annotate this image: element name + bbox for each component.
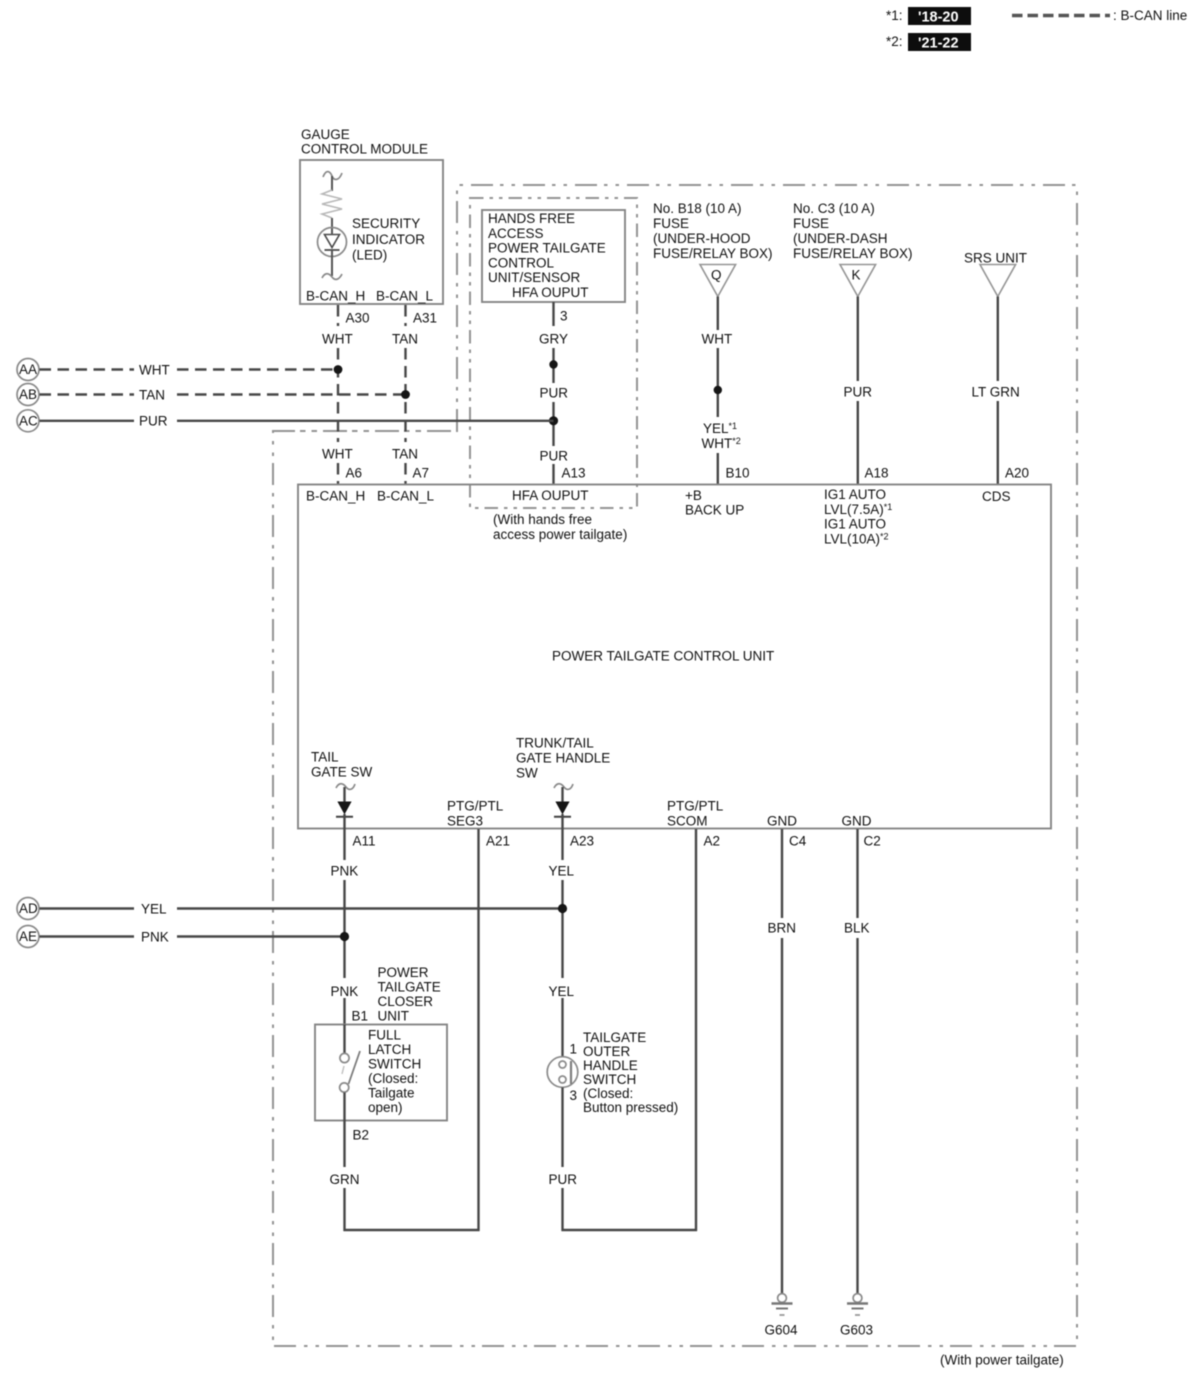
svg-text:A11: A11 (353, 834, 376, 849)
wire PNK from A11 to B1 (331, 829, 369, 1025)
pin B-CAN_H / B-CAN_L labels (306, 289, 434, 304)
svg-text:SW: SW (516, 766, 538, 781)
svg-text:A23: A23 (570, 834, 594, 849)
svg-text:FUSE/RELAY BOX): FUSE/RELAY BOX) (793, 246, 913, 261)
svg-text:3: 3 (570, 1088, 578, 1103)
svg-text:A21: A21 (486, 834, 510, 849)
svg-text:*1:: *1: (886, 8, 903, 23)
wire YEL from A23 to handle switch (549, 829, 575, 1057)
svg-text:B-CAN_H: B-CAN_H (306, 489, 365, 504)
svg-text:IG1 AUTO: IG1 AUTO (824, 517, 886, 532)
svg-text:PUR: PUR (139, 414, 168, 429)
svg-text:3: 3 (560, 309, 568, 324)
svg-text:POWER TAILGATE: POWER TAILGATE (488, 241, 606, 256)
ground G603 (840, 1294, 873, 1338)
svg-text:Tailgate: Tailgate (368, 1086, 415, 1101)
svg-text:G603: G603 (840, 1323, 873, 1338)
svg-text:access power tailgate): access power tailgate) (493, 527, 627, 542)
node junction of AC with A13 wire (549, 416, 558, 425)
svg-text:A31: A31 (413, 311, 437, 326)
pin A30 (338, 305, 370, 326)
svg-text:BLK: BLK (844, 921, 870, 936)
svg-text:BACK UP: BACK UP (685, 503, 744, 518)
svg-text:SCOM: SCOM (667, 814, 708, 829)
node junction AD/YEL (558, 904, 567, 913)
svg-text:PUR: PUR (540, 449, 569, 464)
svg-text:FUSE: FUSE (653, 216, 689, 231)
wire PUR from pin 3 to A2 (549, 1088, 698, 1232)
svg-text:YEL: YEL (549, 864, 575, 879)
svg-text:GRY: GRY (539, 332, 568, 347)
svg-text:HFA OUPUT: HFA OUPUT (512, 488, 589, 503)
fuse K connector triangle (840, 265, 876, 297)
pin A31 (406, 305, 438, 326)
svg-text:CONTROL: CONTROL (488, 255, 554, 270)
fuse Q connector triangle (700, 265, 736, 297)
svg-text:WHT: WHT (322, 447, 353, 462)
connector AA (17, 359, 39, 381)
svg-text:POWER TAILGATE CONTROL UNIT: POWER TAILGATE CONTROL UNIT (552, 649, 774, 664)
wire LT GRN from SRS to A20 (972, 297, 1020, 486)
wire BLK from C2 (844, 829, 870, 1294)
svg-text:PTG/PTL: PTG/PTL (667, 799, 724, 814)
svg-text:AE: AE (19, 929, 37, 944)
svg-text:LVL(10A)*2: LVL(10A)*2 (824, 531, 889, 546)
svg-text:(UNDER-DASH: (UNDER-DASH (793, 231, 888, 246)
power tailgate control unit box (298, 485, 1051, 829)
svg-text:A20: A20 (1005, 466, 1029, 481)
svg-text:AC: AC (19, 413, 38, 428)
power tailgate closer unit box (315, 1025, 447, 1121)
svg-text:PUR: PUR (549, 1172, 578, 1187)
svg-text:+B: +B (685, 488, 702, 503)
svg-text:(Closed:: (Closed: (368, 1071, 418, 1086)
LED security indicator (318, 228, 347, 280)
pin name +B BACK UP (685, 488, 744, 518)
svg-text:G604: G604 (765, 1323, 799, 1338)
trunk/tail gate handle sw label (516, 736, 610, 781)
svg-text:K: K (852, 268, 861, 283)
wire YEL from AD (40, 902, 563, 917)
svg-text:GATE SW: GATE SW (311, 765, 373, 780)
legend B-CAN line sample (1012, 8, 1187, 23)
svg-text:GRN: GRN (330, 1172, 360, 1187)
svg-text:LVL(7.5A)*1: LVL(7.5A)*1 (824, 502, 892, 517)
trunk/tail gate handle sw arrow symbol (554, 784, 573, 829)
svg-text:Q: Q (711, 268, 722, 283)
connector AD (17, 898, 39, 920)
SRS unit connector triangle (980, 265, 1016, 297)
svg-text:(LED): (LED) (352, 248, 387, 263)
svg-text:YEL: YEL (549, 984, 575, 999)
svg-text:AA: AA (19, 362, 37, 377)
wire PNK from AE (40, 930, 345, 945)
svg-text:TAN: TAN (139, 388, 165, 403)
svg-text:TAILGATE: TAILGATE (378, 980, 441, 995)
svg-text:ACCESS: ACCESS (488, 226, 544, 241)
power tailgate closer unit label (378, 965, 441, 1024)
splice on fuse Q wire (714, 386, 722, 394)
svg-text:B10: B10 (726, 466, 750, 481)
svg-text:PNK: PNK (141, 930, 169, 945)
svg-text:AB: AB (19, 387, 37, 402)
tail gate sw arrow symbol (336, 784, 355, 829)
svg-text:OUTER: OUTER (583, 1044, 631, 1059)
gauge control module label (301, 127, 428, 157)
hands free access unit label (488, 211, 606, 300)
boundary (with power tailgate) dash-dot outline (273, 185, 1077, 1346)
wire GRY/PUR from pin 3 to A13 (539, 332, 568, 486)
svg-text:GND: GND (767, 814, 797, 829)
svg-text:GATE HANDLE: GATE HANDLE (516, 751, 610, 766)
svg-text:SWITCH: SWITCH (368, 1057, 421, 1072)
svg-text:SECURITY: SECURITY (352, 216, 420, 231)
svg-text:SWITCH: SWITCH (583, 1072, 636, 1087)
svg-text:SEG3: SEG3 (447, 814, 483, 829)
wire PUR from AC (40, 414, 554, 429)
svg-text:(UNDER-HOOD: (UNDER-HOOD (653, 231, 751, 246)
node junction AE/PNK (340, 932, 349, 941)
svg-text:LATCH: LATCH (368, 1042, 411, 1057)
svg-text:UNIT: UNIT (378, 1009, 410, 1024)
hands free access power tailgate control unit/sensor box (482, 210, 625, 302)
svg-text:PUR: PUR (844, 385, 873, 400)
svg-text:WHT: WHT (322, 332, 353, 347)
node junction AB/TAN (401, 390, 410, 399)
tail gate sw label (311, 750, 373, 780)
svg-text:CDS: CDS (982, 489, 1011, 504)
pin name PTG/PTL SEG3 (447, 799, 504, 829)
resistor (security indicator series) (322, 172, 342, 229)
svg-text:TAIL: TAIL (311, 750, 339, 765)
svg-text:SRS UNIT: SRS UNIT (964, 251, 1027, 266)
svg-text:WHT: WHT (702, 332, 733, 347)
full latch switch symbol (340, 1025, 360, 1122)
wire TAN B-CAN_L vertical (392, 332, 418, 486)
svg-text:TAN: TAN (392, 332, 418, 347)
svg-text:A13: A13 (562, 466, 586, 481)
svg-text:(Closed:: (Closed: (583, 1086, 633, 1101)
inner dashed box (hands free access region) (470, 198, 637, 508)
svg-text:A18: A18 (865, 466, 889, 481)
svg-text:YEL: YEL (141, 902, 167, 917)
wire GRN from B2 to A21 (330, 1121, 480, 1231)
svg-text:C4: C4 (789, 834, 807, 849)
pin name IG1 AUTO LVL (824, 487, 892, 546)
svg-text:No. B18 (10 A): No. B18 (10 A) (653, 201, 742, 216)
wire WHT/YEL from fuse Q to B10 (702, 297, 741, 486)
svg-text:B-CAN_H: B-CAN_H (306, 289, 365, 304)
svg-text:BRN: BRN (768, 921, 797, 936)
svg-text:LT GRN: LT GRN (972, 385, 1020, 400)
wire from A2 down (695, 829, 697, 1231)
svg-text:B-CAN_L: B-CAN_L (377, 489, 435, 504)
svg-text:UNIT/SENSOR: UNIT/SENSOR (488, 270, 581, 285)
svg-text:C2: C2 (864, 834, 881, 849)
splice on GRY/PUR wire (549, 360, 557, 368)
svg-text:(With power tailgate): (With power tailgate) (940, 1353, 1064, 1368)
svg-text:B2: B2 (353, 1128, 370, 1143)
tailgate outer handle switch label (583, 1030, 678, 1115)
svg-text:A2: A2 (704, 834, 721, 849)
svg-text:WHT: WHT (139, 363, 170, 378)
svg-text:FUSE: FUSE (793, 216, 829, 231)
svg-text:TAN: TAN (392, 447, 418, 462)
svg-text:HANDS FREE: HANDS FREE (488, 211, 575, 226)
gauge control module box (300, 160, 443, 304)
svg-text:PUR: PUR (540, 386, 569, 401)
tailgate outer handle switch symbol (547, 1057, 578, 1088)
svg-text:TAILGATE: TAILGATE (583, 1030, 646, 1045)
note with hands free (493, 512, 627, 542)
wire WHT from AA (40, 363, 338, 378)
svg-text:GAUGE: GAUGE (301, 127, 350, 142)
svg-text:IG1 AUTO: IG1 AUTO (824, 487, 886, 502)
wire BRN from C4 (768, 829, 797, 1294)
fuse C3 label (793, 201, 913, 261)
svg-text:HFA OUPUT: HFA OUPUT (512, 285, 589, 300)
svg-text:CONTROL MODULE: CONTROL MODULE (301, 142, 428, 157)
svg-text:PNK: PNK (331, 864, 359, 879)
wire from A21 down (477, 829, 479, 1231)
svg-text:HANDLE: HANDLE (583, 1058, 638, 1073)
svg-text:B-CAN_L: B-CAN_L (376, 289, 434, 304)
svg-text:open): open) (368, 1100, 403, 1115)
svg-text:FUSE/RELAY BOX): FUSE/RELAY BOX) (653, 246, 773, 261)
legend note *2 (886, 33, 971, 52)
full latch switch label (368, 1028, 421, 1116)
svg-text:Button pressed): Button pressed) (583, 1100, 678, 1115)
pin name PTG/PTL SCOM (667, 799, 724, 829)
svg-text:No. C3 (10 A): No. C3 (10 A) (793, 201, 875, 216)
svg-text:B1: B1 (352, 1009, 369, 1024)
ground G604 (765, 1294, 799, 1338)
svg-text:A30: A30 (346, 311, 370, 326)
connector AB (17, 384, 39, 406)
svg-text:(With hands free: (With hands free (493, 512, 592, 527)
svg-text:1: 1 (570, 1042, 578, 1057)
svg-text:FULL: FULL (368, 1028, 402, 1043)
wire PUR from fuse K to A18 (844, 297, 873, 486)
connector AC (17, 410, 39, 432)
svg-text:A7: A7 (413, 466, 430, 481)
wire WHT B-CAN_H vertical (322, 332, 353, 486)
svg-text:'21-22: '21-22 (918, 36, 959, 52)
node junction AA/WHT (334, 365, 343, 374)
pin 3 of hands free unit (554, 302, 568, 326)
svg-text:GND: GND (842, 814, 872, 829)
legend note *1 (886, 7, 971, 26)
svg-text:INDICATOR: INDICATOR (352, 232, 425, 247)
svg-text:POWER: POWER (378, 965, 429, 980)
security indicator label (352, 216, 425, 263)
wire TAN from AB (40, 388, 406, 403)
svg-text:A6: A6 (346, 466, 363, 481)
svg-text:: B-CAN line: : B-CAN line (1113, 8, 1187, 23)
svg-text:'18-20: '18-20 (918, 10, 959, 26)
fuse B18 label (653, 201, 773, 261)
svg-text:AD: AD (19, 901, 38, 916)
svg-text:PTG/PTL: PTG/PTL (447, 799, 504, 814)
connector AE (17, 926, 39, 948)
svg-text:*2:: *2: (886, 34, 903, 49)
svg-text:TRUNK/TAIL: TRUNK/TAIL (516, 736, 594, 751)
svg-text:CLOSER: CLOSER (378, 994, 434, 1009)
svg-text:PNK: PNK (331, 984, 359, 999)
